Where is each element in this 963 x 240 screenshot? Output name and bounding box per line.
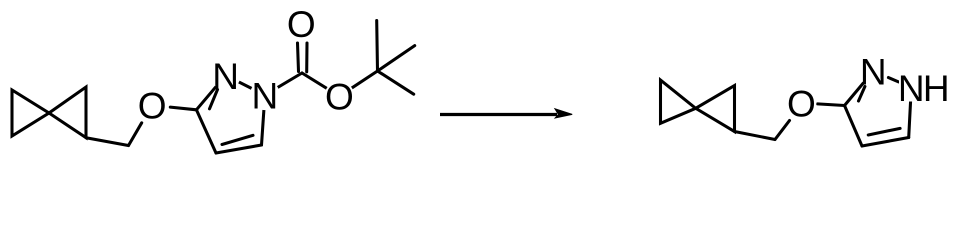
svg-text:O: O xyxy=(325,77,354,118)
pyrazole left: C4=C5 double bond xyxy=(216,135,262,153)
bond N1-C5 right xyxy=(909,87,912,137)
bond Ccarbonyl-Oester xyxy=(302,73,339,96)
bond O-C3 pyrazole right xyxy=(818,104,845,106)
svg-text:O: O xyxy=(787,84,816,125)
spiropentane right molecule: right cyclopropane ring xyxy=(696,86,735,132)
bond spiroC-CH2 xyxy=(86,138,129,146)
bond spiroC-CH2 right xyxy=(735,132,776,140)
bond O-C3 pyrazole xyxy=(170,107,196,110)
pyrazole left: C3=N2 double bond xyxy=(196,75,225,110)
carbonyl C=O double bond xyxy=(298,43,308,72)
spiropentane right molecule: left cyclopropane ring xyxy=(661,80,696,123)
pyrazole right: C3=N2 double bond xyxy=(845,71,874,105)
svg-text:N: N xyxy=(860,52,887,93)
bond N2-N1 right xyxy=(888,78,898,82)
svg-text:N: N xyxy=(212,56,239,97)
tBu methyl up xyxy=(375,21,379,72)
svg-text:N: N xyxy=(898,68,925,109)
bond CH2-O ether right xyxy=(775,121,790,140)
reaction arrow xyxy=(440,108,572,119)
spiropentane left molecule: right cyclopropane ring xyxy=(49,87,86,138)
pyrazole right: C4=C5 double bond xyxy=(862,128,909,146)
bond N1-Ccarbonyl (Boc) xyxy=(265,73,302,95)
spiropentane left molecule: left cyclopropane ring xyxy=(12,90,49,136)
svg-text:O: O xyxy=(138,86,167,127)
bond C4-C3 right xyxy=(845,106,863,147)
svg-text:N: N xyxy=(252,76,279,117)
tBu methyl lower right xyxy=(378,71,414,94)
letter background masks xyxy=(137,9,948,121)
bond N1-C5 xyxy=(262,95,265,145)
bond CH2-O ether xyxy=(129,123,142,146)
bond N2-N1 xyxy=(226,75,265,95)
bond Oester-CtBu xyxy=(339,71,377,96)
svg-text:O: O xyxy=(287,4,316,45)
tBu methyl upper right xyxy=(378,46,415,71)
bond C4-C3 xyxy=(196,110,216,153)
svg-text:H: H xyxy=(923,68,950,109)
